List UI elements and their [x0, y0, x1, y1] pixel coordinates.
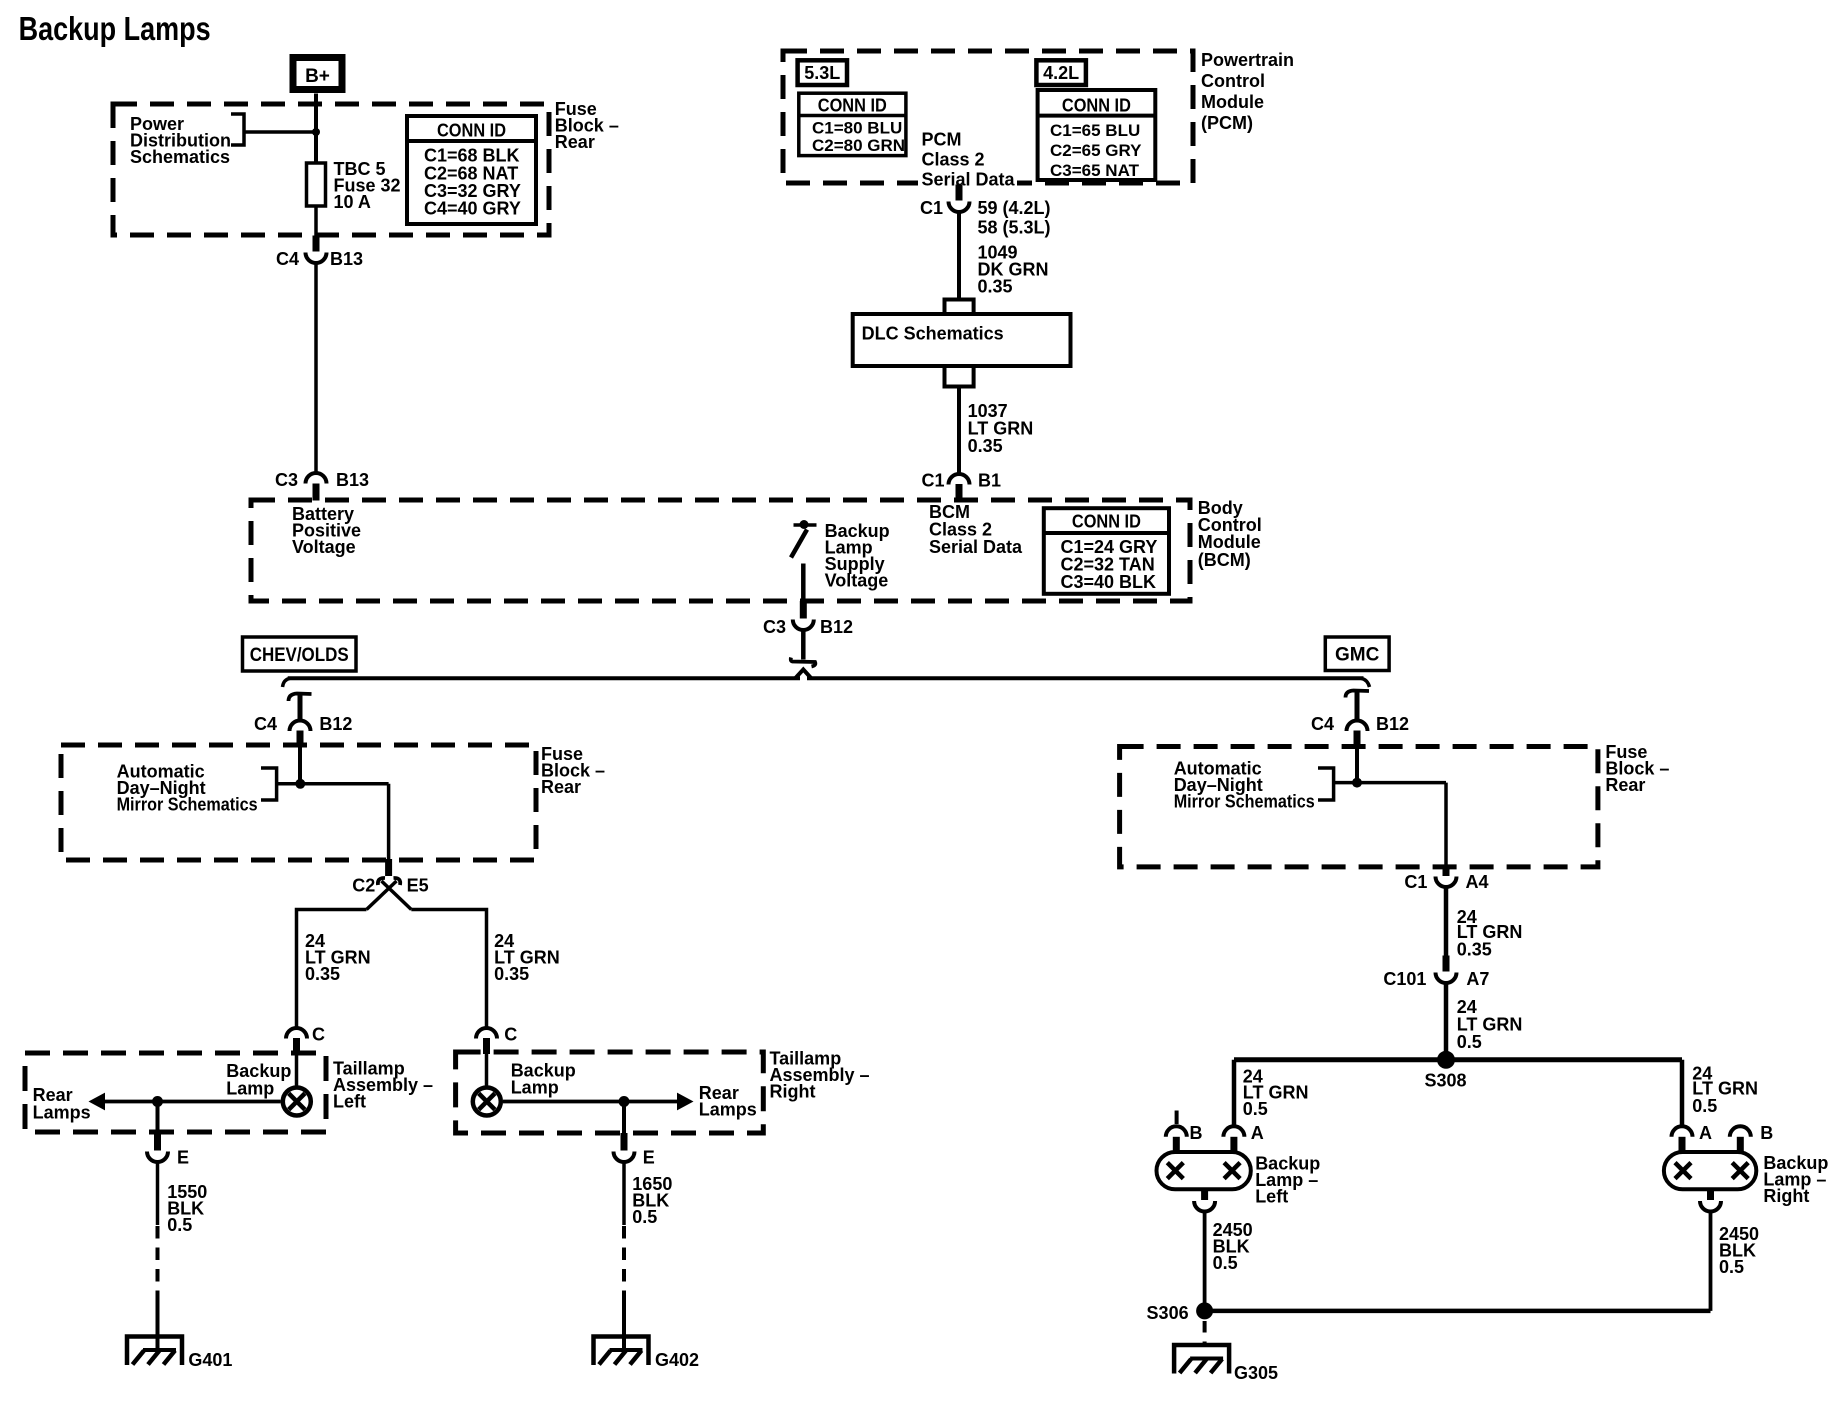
svg-text:Lamp: Lamp — [226, 1079, 274, 1099]
svg-text:G305: G305 — [1234, 1363, 1278, 1383]
backup lamp bulb (right) — [473, 1088, 501, 1116]
svg-text:Powertrain: Powertrain — [1201, 50, 1294, 70]
junction dot (GMC fuse block) — [1352, 778, 1362, 788]
wire B+ to fuse — [314, 94, 318, 164]
connector C (taillamp left) — [286, 1025, 325, 1055]
connector C1 pins 59 (4.2L) / 58 (5.3L) — [920, 185, 1051, 238]
connector pin A (lamp left) — [1223, 1123, 1263, 1153]
label Backup Lamp (left) — [226, 1061, 291, 1099]
wire junction to E (left) — [156, 1102, 160, 1134]
svg-text:Voltage: Voltage — [825, 571, 889, 591]
svg-text:Mirror Schematics: Mirror Schematics — [1174, 792, 1315, 812]
svg-text:B12: B12 — [820, 617, 853, 637]
connector C1 A4 — [1404, 866, 1488, 892]
svg-text:B: B — [1760, 1123, 1773, 1143]
svg-text:CONN ID: CONN ID — [1072, 512, 1141, 532]
svg-text:A4: A4 — [1466, 872, 1489, 892]
svg-text:Lamp: Lamp — [511, 1078, 559, 1098]
wire junction to E (right) — [622, 1102, 626, 1134]
connector C4 B12 (CHEV fuse block) — [254, 714, 352, 747]
wire C into lamp (right) — [485, 1053, 489, 1088]
CONN ID table (4.2L) — [1038, 90, 1156, 180]
svg-text:CONN ID: CONN ID — [818, 96, 887, 116]
Power Distribution Schematics reference label — [130, 114, 231, 167]
svg-text:E5: E5 — [407, 876, 429, 896]
label Battery Positive Voltage — [292, 504, 361, 557]
svg-text:C2: C2 — [352, 876, 375, 896]
junction dot (CHEV fuse block) — [295, 779, 305, 789]
svg-text:B1: B1 — [978, 471, 1001, 491]
wire 1037 LT GRN 0.35 — [957, 387, 961, 474]
wire switch to C3/B12 — [801, 564, 806, 602]
svg-text:A: A — [1699, 1123, 1712, 1143]
ground G401 — [127, 1337, 232, 1371]
svg-text:E: E — [177, 1148, 189, 1168]
bracket for Mirror Schematics reference (GMC) — [1318, 768, 1334, 800]
svg-text:C4: C4 — [1311, 714, 1334, 734]
svg-text:0.5: 0.5 — [1243, 1099, 1268, 1119]
backup lamp right (dual bulb) — [1664, 1152, 1756, 1189]
svg-text:0.5: 0.5 — [167, 1215, 192, 1235]
bottom pin connector (lamp left) — [1194, 1189, 1215, 1212]
svg-text:0.5: 0.5 — [1692, 1096, 1717, 1116]
label Backup Lamp (right) — [511, 1061, 576, 1098]
svg-text:DLC Schematics: DLC Schematics — [862, 324, 1004, 344]
svg-text:5.3L: 5.3L — [804, 63, 840, 83]
svg-text:Control: Control — [1201, 71, 1265, 91]
wire lamp to rear lamps arrow (left) — [158, 1100, 281, 1104]
svg-text:C1=68 BLK: C1=68 BLK — [424, 146, 520, 166]
svg-text:Mirror Schematics: Mirror Schematics — [117, 795, 258, 815]
wire 1550 BLK 0.5 — [156, 1162, 160, 1225]
connector pin B (lamp right) — [1730, 1123, 1773, 1153]
svg-text:Lamps: Lamps — [33, 1103, 91, 1123]
wire S308 to backup lamp right — [1680, 1060, 1685, 1127]
bracket for Mirror Schematics reference (CHEV) — [261, 768, 277, 800]
label BCM Class 2 Serial Data — [929, 502, 1023, 557]
splice bus S308 — [1234, 1057, 1682, 1062]
bottom pin connector (lamp right) — [1700, 1189, 1721, 1212]
bus right end hook — [1361, 678, 1370, 687]
dashed ground lead S306 to G305 — [1203, 1321, 1207, 1345]
bus wire (right segment) — [807, 676, 1364, 680]
svg-text:4.2L: 4.2L — [1043, 63, 1079, 83]
CONN ID table (5.3L) — [799, 93, 906, 155]
svg-text:0.35: 0.35 — [978, 277, 1013, 297]
svg-text:C4: C4 — [254, 714, 277, 734]
svg-text:C: C — [312, 1025, 325, 1045]
svg-text:Rear: Rear — [1605, 775, 1645, 795]
svg-text:Right: Right — [1763, 1186, 1809, 1206]
bus wire CHEV/GMC branch (left segment) — [288, 676, 800, 680]
svg-text:B12: B12 — [1376, 714, 1409, 734]
power symbol B+ — [293, 58, 342, 90]
wire C4/B12 into fuse block — [298, 747, 302, 785]
wire right branch to taillamp right — [411, 910, 486, 1028]
svg-text:B13: B13 — [330, 249, 363, 269]
wire S308 to backup lamp left — [1232, 1060, 1237, 1127]
connector C (taillamp right) — [476, 1025, 517, 1055]
arrowhead to Rear Lamps (left) — [89, 1093, 106, 1111]
DLC Schematics off-page reference — [853, 300, 1071, 387]
wire 24 LT GRN 0.35 (GMC) — [1444, 888, 1449, 956]
connector C1 B1 — [921, 471, 1001, 501]
svg-text:Module: Module — [1201, 92, 1264, 112]
svg-text:C1: C1 — [1404, 872, 1427, 892]
label Body Control Module (BCM) — [1198, 498, 1262, 570]
wire lamp to rear lamps arrow (right) — [503, 1100, 679, 1104]
label Fuse Block - Rear (GMC) — [1605, 742, 1669, 795]
wire hook to C4/B12 (CHEV) — [298, 695, 303, 723]
svg-text:Rear: Rear — [555, 132, 595, 152]
svg-text:S306: S306 — [1147, 1303, 1189, 1323]
svg-text:Serial Data: Serial Data — [929, 537, 1023, 557]
svg-text:C3=40 BLK: C3=40 BLK — [1061, 572, 1157, 592]
connector C101 A7 — [1383, 956, 1489, 990]
ground G305 — [1174, 1345, 1278, 1383]
crossover bump into bus — [796, 670, 812, 679]
svg-text:(PCM): (PCM) — [1201, 113, 1253, 133]
svg-text:E: E — [643, 1148, 655, 1168]
svg-text:C4: C4 — [276, 249, 299, 269]
svg-text:C1: C1 — [920, 198, 943, 218]
connector C3 B13 — [275, 470, 369, 501]
wire corner down to C1/A4 — [1444, 783, 1448, 867]
CHEV branch continuation hook — [289, 694, 312, 702]
bus left end hook — [283, 678, 291, 687]
svg-text:C1=65 BLU: C1=65 BLU — [1050, 121, 1140, 140]
label Powertrain Control Module (PCM) — [1201, 50, 1294, 133]
svg-text:0.35: 0.35 — [968, 436, 1003, 456]
junction dot — [312, 128, 320, 136]
tag box GMC — [1325, 637, 1389, 671]
fuse block rear dashed box (CHEV) — [61, 745, 536, 860]
wire label 24 LT GRN 0.35 (right) — [494, 931, 560, 984]
taillamp assembly left dashed box — [25, 1053, 326, 1132]
fuse TBC 5 Fuse 32 10 A — [307, 163, 326, 206]
junction dot (right taillamp) — [619, 1096, 630, 1107]
svg-text:B: B — [1190, 1123, 1203, 1143]
splice dot S306 — [1196, 1302, 1213, 1319]
svg-text:0.5: 0.5 — [632, 1207, 657, 1227]
svg-text:Lamps: Lamps — [699, 1100, 757, 1120]
svg-text:Class 2: Class 2 — [922, 150, 985, 170]
svg-text:0.5: 0.5 — [1719, 1257, 1744, 1277]
dashed ground lead (right) — [622, 1226, 626, 1296]
connector C4 B13 — [276, 236, 363, 270]
connector E (left) — [147, 1132, 189, 1168]
svg-text:Rear: Rear — [541, 777, 581, 797]
connector E (right) — [614, 1133, 655, 1168]
svg-text:A7: A7 — [1466, 969, 1489, 989]
svg-text:0.5: 0.5 — [1213, 1253, 1238, 1273]
connector pin B (lamp left) — [1166, 1123, 1203, 1153]
bracket for Power Distribution reference — [231, 114, 244, 145]
ground G402 — [594, 1337, 700, 1371]
svg-text:B+: B+ — [305, 66, 330, 87]
svg-text:C4=40 GRY: C4=40 GRY — [424, 199, 521, 219]
wire label 24 LT GRN 0.5 (lamp right) — [1692, 1064, 1758, 1117]
label Backup Lamp Supply Voltage — [825, 521, 890, 591]
svg-text:0.5: 0.5 — [1457, 1032, 1482, 1052]
BCM dashed box (Body Control Module) — [251, 500, 1190, 601]
svg-text:S308: S308 — [1425, 1071, 1467, 1091]
svg-text:10 A: 10 A — [334, 192, 371, 212]
wire bracket to corner (GMC) — [1334, 781, 1446, 785]
label Backup Lamp - Left — [1255, 1154, 1320, 1207]
svg-text:C2=80 GRN: C2=80 GRN — [812, 136, 905, 155]
stub pin B (lamp left) — [1175, 1111, 1179, 1125]
svg-text:CONN ID: CONN ID — [1062, 96, 1131, 116]
tag box CHEV/OLDS — [243, 637, 357, 671]
svg-text:CHEV/OLDS: CHEV/OLDS — [250, 645, 349, 666]
svg-text:B13: B13 — [336, 470, 369, 490]
svg-text:GMC: GMC — [1335, 645, 1380, 666]
CONN ID table (BCM) — [1044, 508, 1169, 594]
label Automatic Day-Night Mirror Schematics (CHEV) — [117, 762, 258, 815]
arrowhead to Rear Lamps (right) — [677, 1093, 694, 1111]
taillamp assembly right dashed box — [456, 1052, 764, 1133]
wire bracket to main — [244, 130, 316, 134]
label Fuse Block - Rear (top) — [555, 99, 619, 152]
svg-text:C1: C1 — [921, 471, 944, 491]
in-line connector C2 E5 (crossover) — [352, 876, 428, 910]
svg-text:Module: Module — [1198, 532, 1261, 552]
splice dot S308 — [1437, 1051, 1455, 1069]
svg-text:(BCM): (BCM) — [1198, 550, 1251, 570]
engine tag 4.2L — [1036, 60, 1086, 85]
label Rear Lamps (right) — [699, 1083, 757, 1120]
engine tag 5.3L — [798, 60, 847, 85]
connector pin A (lamp right) — [1672, 1123, 1713, 1153]
svg-text:CONN ID: CONN ID — [437, 121, 506, 141]
label Backup Lamp - Right — [1763, 1153, 1828, 1206]
wire left branch to taillamp left — [297, 910, 367, 1028]
splice wire S306 — [1205, 1309, 1711, 1314]
connector C3 B12 — [763, 601, 853, 637]
svg-text:C101: C101 — [1383, 969, 1426, 989]
wire hook to C4/B12 (GMC) — [1355, 693, 1360, 723]
wire 2450 BLK 0.5 (left) — [1203, 1213, 1207, 1310]
svg-text:C3=65 NAT: C3=65 NAT — [1050, 161, 1140, 180]
stub out of fuse block — [385, 859, 392, 876]
svg-text:Right: Right — [770, 1082, 816, 1102]
svg-text:0.35: 0.35 — [1457, 940, 1492, 960]
label Rear Lamps (left) — [33, 1085, 91, 1123]
svg-text:Voltage: Voltage — [292, 537, 356, 557]
label Fuse Block - Rear (CHEV) — [541, 744, 605, 797]
label Taillamp Assembly - Left — [333, 1059, 433, 1112]
svg-text:A: A — [1251, 1123, 1264, 1143]
svg-text:C: C — [504, 1025, 517, 1045]
svg-text:Left: Left — [1255, 1187, 1288, 1207]
PCM dashed box (Powertrain Control Module) — [783, 51, 1193, 183]
fuse block rear (top) dashed box — [113, 104, 549, 235]
wire 1650 BLK 0.5 — [622, 1162, 626, 1225]
svg-text:G402: G402 — [655, 1350, 699, 1370]
label Taillamp Assembly - Right — [770, 1049, 870, 1102]
junction dot (left taillamp) — [152, 1096, 163, 1107]
svg-text:G401: G401 — [188, 1350, 232, 1370]
dashed ground lead (left) — [156, 1226, 160, 1296]
switch Backup Lamp Supply Voltage (inside BCM) — [791, 520, 817, 558]
wire label 24 LT GRN 0.35 (left) — [305, 931, 371, 984]
wire 1049 DK GRN 0.35 — [957, 214, 961, 301]
svg-text:58 (5.3L): 58 (5.3L) — [978, 218, 1051, 238]
wire bracket to corner — [277, 782, 389, 786]
wire fuse to connector — [314, 206, 318, 236]
fuse block rear dashed box (GMC) — [1120, 747, 1598, 867]
svg-text:C3: C3 — [275, 470, 298, 490]
svg-text:Schematics: Schematics — [130, 147, 230, 167]
wire C4/B12 into fuse block (GMC) — [1355, 747, 1359, 784]
label PCM Class 2 Serial Data — [918, 130, 1017, 191]
GMC branch continuation hook — [1346, 691, 1370, 698]
wire-continuation bar at branch point — [791, 658, 816, 667]
svg-text:59 (4.2L): 59 (4.2L) — [978, 198, 1051, 218]
svg-text:C3: C3 — [763, 617, 786, 637]
svg-text:Backup Lamps: Backup Lamps — [19, 10, 211, 47]
svg-text:C1=80 BLU: C1=80 BLU — [812, 119, 902, 138]
wire corner down to C2/E5 — [387, 784, 391, 860]
wire 2450 BLK 0.5 (right) — [1709, 1213, 1713, 1311]
backup lamp bulb (left) — [283, 1088, 311, 1116]
wire C3/B12 down to branch bus — [801, 630, 806, 660]
wire C4/B13 to C3/B13 — [314, 265, 318, 473]
svg-text:0.35: 0.35 — [305, 964, 340, 984]
svg-text:Left: Left — [333, 1092, 366, 1112]
connector C4 B12 (GMC fuse block) — [1311, 714, 1409, 747]
svg-text:0.35: 0.35 — [494, 964, 529, 984]
CONN ID table (fuse block rear) — [407, 116, 536, 224]
wire C into lamp (left) — [295, 1054, 299, 1088]
wire 24 LT GRN 0.5 (GMC trunk) — [1444, 984, 1449, 1058]
svg-text:C2=65 GRY: C2=65 GRY — [1050, 141, 1142, 160]
backup lamp left (dual bulb) — [1157, 1152, 1251, 1189]
label Automatic Day-Night Mirror Schematics (GMC) — [1174, 759, 1315, 812]
wire label 24 LT GRN 0.5 (lamp left) — [1243, 1067, 1309, 1120]
svg-text:Serial Data: Serial Data — [922, 170, 1016, 190]
svg-text:PCM: PCM — [922, 130, 962, 150]
svg-text:B12: B12 — [319, 714, 352, 734]
